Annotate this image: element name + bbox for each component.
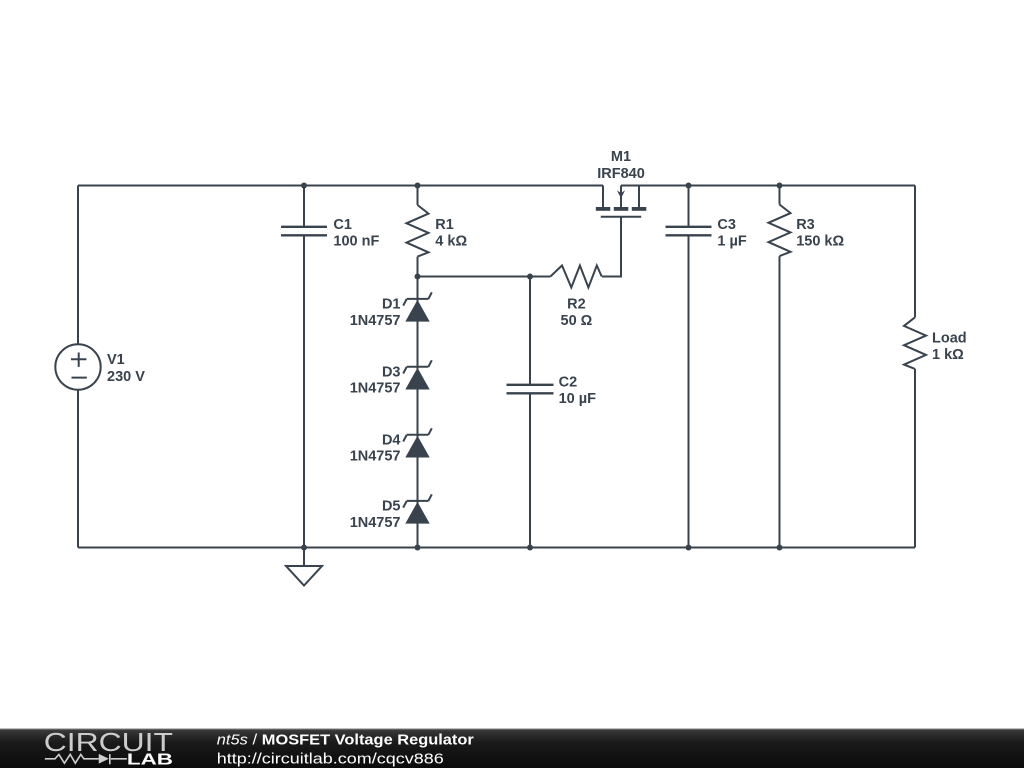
svg-text:LAB: LAB [127, 752, 173, 768]
wire right vertical upper [914, 186, 916, 318]
wire C1 upper stem [303, 186, 305, 227]
wire C2 upper stem [529, 277, 531, 385]
svg-text:1 µF: 1 µF [717, 233, 746, 249]
resistor Load [904, 317, 926, 369]
junction dot bottom C2 [527, 545, 533, 551]
svg-text:50 Ω: 50 Ω [561, 313, 593, 329]
resistor R3 [769, 205, 791, 257]
capacitor C1 [281, 227, 327, 236]
junction dot node A C2 [527, 274, 533, 280]
wire R3 lower stem [779, 256, 781, 547]
ground [286, 548, 322, 586]
wire C3 lower stem [688, 235, 690, 547]
svg-text:C2: C2 [559, 375, 578, 391]
svg-text:MOSFET Voltage Regulator: MOSFET Voltage Regulator [262, 732, 474, 748]
svg-text:1N4757: 1N4757 [350, 515, 401, 531]
wire R3 upper stem [779, 186, 781, 205]
wire R1 upper stem [417, 186, 419, 206]
wire left vertical lower [77, 390, 79, 548]
wire C1 lower stem [303, 235, 305, 547]
svg-text:V1: V1 [107, 352, 125, 368]
wire bottom [78, 547, 915, 549]
wire R1 to node A [417, 257, 419, 277]
junction dot bottom C3 [686, 545, 692, 551]
junction dot bottom R3 [777, 545, 783, 551]
svg-text:D3: D3 [382, 364, 401, 380]
svg-text:IRF840: IRF840 [597, 166, 645, 182]
diode D5 [403, 494, 432, 523]
junction dot top R3 [777, 183, 783, 189]
svg-text:C1: C1 [333, 217, 352, 233]
svg-text:R2: R2 [567, 296, 586, 312]
wire diode chain [417, 277, 419, 548]
svg-text:10 µF: 10 µF [559, 391, 597, 407]
svg-text:Load: Load [932, 331, 967, 347]
svg-text:100 nF: 100 nF [333, 233, 379, 249]
diode D1 [403, 292, 432, 321]
wire left vertical upper [77, 186, 79, 345]
wire top left segment [78, 185, 603, 187]
svg-text:nt5s: nt5s [217, 732, 248, 748]
svg-text:/: / [248, 732, 262, 748]
resistor R1 [407, 205, 429, 257]
capacitor C2 [507, 385, 554, 394]
svg-text:1 kΩ: 1 kΩ [932, 347, 964, 363]
svg-text:D4: D4 [382, 432, 401, 448]
junction dot bottom diodes [415, 545, 421, 551]
svg-text:C3: C3 [717, 217, 736, 233]
voltage source V1 [55, 344, 100, 389]
svg-text:1N4757: 1N4757 [350, 449, 401, 465]
junction dot top C1 [301, 183, 307, 189]
junction dot node A R1 [415, 274, 421, 280]
wire C3 upper stem [688, 186, 690, 227]
svg-text:D5: D5 [382, 499, 401, 515]
wire R2 to gate [602, 217, 621, 277]
junction dot bottom ground [301, 545, 307, 551]
svg-text:R3: R3 [796, 217, 815, 233]
svg-text:M1: M1 [611, 149, 631, 165]
diode D3 [403, 360, 432, 389]
junction dot top C3 [686, 183, 692, 189]
svg-text:4 kΩ: 4 kΩ [435, 233, 467, 249]
svg-text:230 V: 230 V [107, 369, 145, 385]
svg-text:1N4757: 1N4757 [350, 381, 401, 397]
diode D4 [403, 428, 432, 457]
footer bar [0, 729, 1024, 768]
logo squiggle resistor-diode wire [45, 754, 127, 764]
wire top right segment [621, 185, 915, 187]
svg-text:D1: D1 [382, 296, 401, 312]
svg-text:R1: R1 [435, 217, 454, 233]
mosfet M1 [596, 186, 647, 217]
capacitor C3 [666, 227, 712, 236]
wire node A horizontal [418, 276, 551, 278]
wire right vertical lower [914, 369, 916, 548]
svg-text:150 kΩ: 150 kΩ [796, 233, 844, 249]
svg-text:http://circuitlab.com/cqcv886: http://circuitlab.com/cqcv886 [217, 752, 444, 768]
wire C2 lower stem [529, 393, 531, 547]
svg-text:1N4757: 1N4757 [350, 313, 401, 329]
junction dot top R1 [415, 183, 421, 189]
resistor R2 [550, 266, 601, 288]
